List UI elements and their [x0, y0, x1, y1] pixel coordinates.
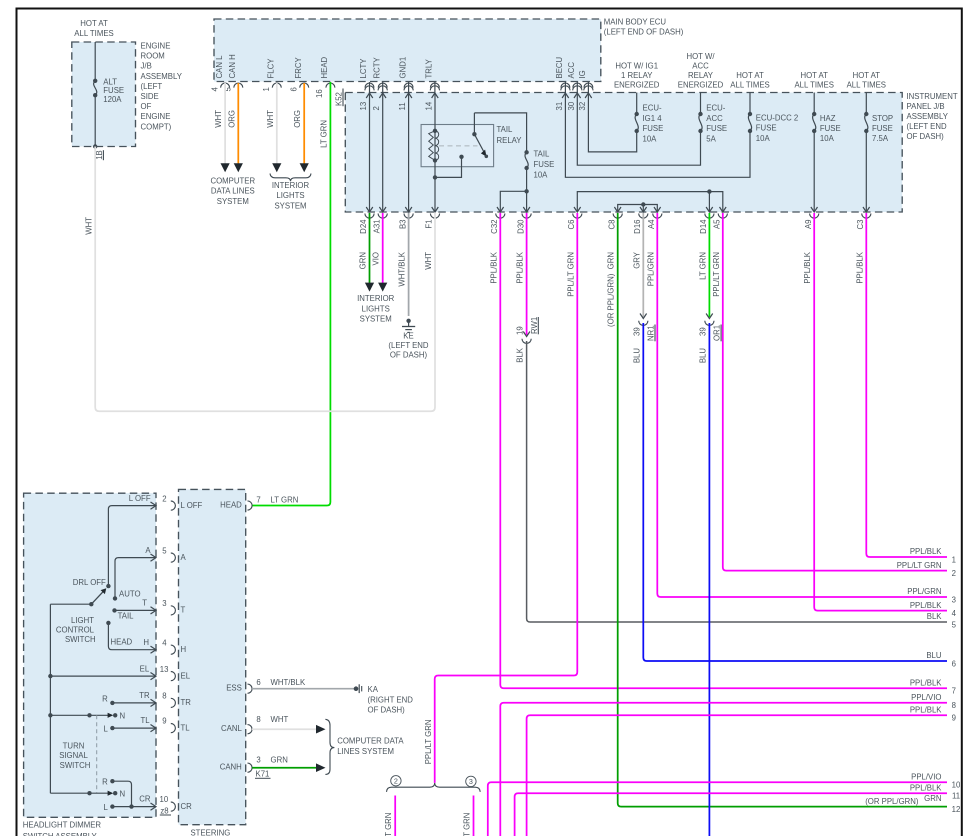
svg-text:R: R: [102, 777, 108, 786]
svg-text:1 RELAY: 1 RELAY: [621, 71, 653, 80]
svg-text:8: 8: [256, 715, 260, 724]
svg-text:BLK: BLK: [515, 347, 524, 363]
svg-text:16: 16: [315, 89, 324, 98]
svg-text:OF: OF: [141, 102, 152, 111]
svg-text:ORG: ORG: [293, 110, 302, 128]
svg-text:PPL/LT GRN: PPL/LT GRN: [384, 813, 393, 836]
svg-text:LT GRN: LT GRN: [698, 252, 707, 280]
svg-text:11: 11: [952, 792, 960, 801]
svg-text:A5: A5: [713, 219, 722, 229]
svg-text:ENERGIZED: ENERGIZED: [614, 80, 660, 89]
svg-text:5: 5: [162, 546, 167, 555]
svg-text:HOT W/: HOT W/: [686, 52, 715, 61]
svg-text:AUTO: AUTO: [119, 590, 141, 599]
svg-text:PPL/BLK: PPL/BLK: [803, 251, 812, 283]
svg-text:TL: TL: [140, 716, 150, 725]
svg-text:DRL OFF: DRL OFF: [73, 578, 106, 587]
svg-text:FUSE: FUSE: [872, 124, 893, 133]
svg-text:31: 31: [555, 102, 564, 111]
svg-text:EL: EL: [181, 671, 191, 680]
svg-text:ECU-: ECU-: [706, 104, 725, 113]
svg-text:PPL/BLK: PPL/BLK: [489, 251, 498, 283]
svg-text:CANH: CANH: [220, 763, 242, 772]
svg-text:12: 12: [952, 805, 961, 814]
svg-text:10A: 10A: [820, 134, 835, 143]
svg-text:9: 9: [952, 714, 956, 723]
svg-text:z8: z8: [160, 807, 168, 816]
svg-text:TAIL: TAIL: [118, 612, 135, 621]
svg-text:2: 2: [394, 777, 398, 786]
svg-text:FUSE: FUSE: [706, 124, 727, 133]
svg-text:FUSE: FUSE: [103, 86, 124, 95]
svg-text:T: T: [142, 599, 147, 608]
svg-text:L: L: [103, 803, 108, 812]
svg-text:C8: C8: [607, 220, 616, 230]
svg-text:39: 39: [698, 327, 707, 336]
svg-text:OR1: OR1: [713, 325, 722, 341]
svg-text:ALT: ALT: [103, 78, 117, 87]
svg-text:HOT AT: HOT AT: [80, 19, 108, 28]
svg-text:PPL/BLK: PPL/BLK: [910, 679, 942, 688]
svg-text:HEADLIGHT DIMMER: HEADLIGHT DIMMER: [23, 821, 102, 830]
svg-text:R: R: [102, 695, 108, 704]
svg-text:1: 1: [262, 87, 271, 91]
svg-text:4: 4: [211, 87, 220, 92]
svg-text:B3: B3: [398, 220, 407, 230]
svg-text:11: 11: [398, 102, 407, 110]
svg-text:ACC: ACC: [692, 62, 709, 71]
svg-text:5: 5: [952, 620, 957, 629]
svg-text:ECU-: ECU-: [643, 104, 662, 113]
svg-text:PPL/BLK: PPL/BLK: [855, 251, 864, 283]
svg-text:K71: K71: [256, 769, 270, 778]
svg-text:PPL/LT GRN: PPL/LT GRN: [566, 252, 575, 297]
svg-text:WHT/BLK: WHT/BLK: [271, 678, 306, 687]
svg-text:COMPT): COMPT): [141, 122, 172, 131]
svg-text:COMPUTER DATA: COMPUTER DATA: [337, 737, 404, 746]
svg-text:INTERIOR: INTERIOR: [272, 181, 310, 190]
svg-text:INSTRUMENT: INSTRUMENT: [907, 92, 958, 101]
svg-text:TL: TL: [181, 723, 191, 732]
svg-text:LT GRN: LT GRN: [271, 495, 299, 504]
svg-text:(LEFT: (LEFT: [141, 82, 163, 91]
svg-text:PANEL J/B: PANEL J/B: [907, 102, 945, 111]
svg-text:ROOM: ROOM: [141, 52, 165, 61]
svg-text:OF DASH): OF DASH): [368, 706, 406, 715]
svg-text:BECU: BECU: [555, 56, 564, 78]
svg-text:J/B: J/B: [141, 62, 152, 71]
svg-text:LINES SYSTEM: LINES SYSTEM: [337, 747, 394, 756]
svg-text:ACC: ACC: [567, 62, 576, 79]
svg-text:SIDE: SIDE: [141, 92, 159, 101]
svg-text:RW1: RW1: [530, 317, 539, 334]
svg-text:HEAD: HEAD: [220, 501, 242, 510]
svg-text:(LEFT END: (LEFT END: [907, 122, 948, 131]
svg-text:A4: A4: [647, 219, 656, 229]
svg-text:4: 4: [162, 639, 167, 648]
svg-text:FUSE: FUSE: [820, 124, 841, 133]
svg-text:D24: D24: [359, 219, 368, 234]
svg-text:RELAY: RELAY: [688, 71, 714, 80]
svg-text:39: 39: [632, 327, 641, 336]
svg-text:3: 3: [256, 755, 260, 764]
svg-text:1B: 1B: [95, 150, 104, 160]
svg-text:(OR PPL/GRN): (OR PPL/GRN): [865, 797, 919, 806]
svg-text:DATA LINES: DATA LINES: [211, 187, 255, 196]
svg-text:PPL/BLK: PPL/BLK: [910, 547, 942, 556]
svg-text:KE: KE: [403, 331, 413, 340]
svg-text:PPL/BLK: PPL/BLK: [516, 251, 525, 283]
svg-text:INTERIOR: INTERIOR: [357, 294, 395, 303]
svg-text:K52: K52: [335, 92, 344, 106]
svg-text:ESS: ESS: [226, 684, 242, 693]
svg-text:EL: EL: [140, 664, 150, 673]
svg-text:A31: A31: [372, 220, 381, 234]
svg-text:GRN: GRN: [924, 794, 941, 803]
svg-text:PPL/LT GRN: PPL/LT GRN: [897, 561, 942, 570]
svg-text:SYSTEM: SYSTEM: [274, 201, 306, 210]
svg-text:IG: IG: [578, 70, 587, 78]
svg-text:WHT: WHT: [424, 252, 433, 270]
svg-text:F1: F1: [425, 220, 434, 229]
svg-text:ASSEMBLY: ASSEMBLY: [907, 112, 949, 121]
svg-text:ALL TIMES: ALL TIMES: [847, 80, 886, 89]
svg-text:IG1 4: IG1 4: [643, 114, 663, 123]
svg-text:CONTROL: CONTROL: [56, 625, 95, 634]
svg-text:LIGHTS: LIGHTS: [276, 191, 304, 200]
svg-text:HOT W/ IG1: HOT W/ IG1: [615, 62, 658, 71]
svg-text:7.5A: 7.5A: [872, 134, 889, 143]
svg-text:A: A: [181, 553, 187, 562]
svg-text:OF DASH): OF DASH): [390, 351, 428, 360]
svg-text:3: 3: [952, 595, 956, 604]
svg-text:SIGNAL: SIGNAL: [59, 751, 88, 760]
svg-text:ECU-DCC 2: ECU-DCC 2: [756, 113, 798, 122]
svg-text:FLCY: FLCY: [267, 58, 276, 79]
svg-text:13: 13: [160, 665, 169, 674]
svg-text:MAIN BODY ECU: MAIN BODY ECU: [604, 18, 667, 27]
svg-text:N: N: [120, 790, 126, 799]
svg-text:COMPUTER: COMPUTER: [210, 176, 255, 185]
svg-text:WHT: WHT: [84, 217, 93, 235]
svg-text:NR1: NR1: [647, 325, 656, 341]
svg-text:D30: D30: [516, 219, 525, 234]
svg-text:D16: D16: [633, 220, 642, 234]
svg-text:2: 2: [372, 106, 381, 110]
svg-text:SYSTEM: SYSTEM: [217, 197, 249, 206]
svg-text:FRCY: FRCY: [294, 56, 303, 78]
svg-text:10: 10: [160, 795, 169, 804]
svg-text:ACC: ACC: [706, 114, 723, 123]
svg-text:2: 2: [952, 569, 956, 578]
svg-text:D14: D14: [699, 219, 708, 234]
svg-text:BLU: BLU: [926, 651, 942, 660]
svg-text:ENGINE: ENGINE: [141, 42, 171, 51]
svg-text:BLK: BLK: [927, 612, 943, 621]
svg-text:HEAD: HEAD: [111, 638, 133, 647]
svg-text:WHT: WHT: [214, 110, 223, 128]
svg-text:C32: C32: [490, 220, 499, 234]
svg-text:L: L: [103, 724, 108, 733]
svg-text:19: 19: [515, 326, 524, 335]
svg-text:TR: TR: [181, 698, 192, 707]
svg-text:7: 7: [952, 687, 956, 696]
svg-text:PPL/GRN: PPL/GRN: [907, 587, 941, 596]
svg-text:PPL/BLK: PPL/BLK: [910, 705, 942, 714]
svg-text:6: 6: [290, 87, 299, 91]
svg-text:9: 9: [162, 717, 166, 726]
svg-text:CANL: CANL: [221, 724, 242, 733]
svg-text:2: 2: [162, 494, 166, 503]
svg-text:6: 6: [256, 678, 260, 687]
svg-text:10A: 10A: [534, 171, 549, 180]
svg-text:FUSE: FUSE: [534, 160, 555, 169]
svg-text:10: 10: [952, 781, 961, 790]
svg-text:HOT AT: HOT AT: [800, 71, 828, 80]
svg-text:OF DASH): OF DASH): [907, 132, 945, 141]
svg-text:BLU: BLU: [632, 348, 641, 364]
svg-text:(LEFT END: (LEFT END: [388, 341, 429, 350]
svg-text:PPL/LT GRN: PPL/LT GRN: [463, 813, 472, 836]
svg-text:10A: 10A: [756, 134, 771, 143]
svg-text:STEERING: STEERING: [190, 829, 230, 836]
svg-text:PPL/VIO: PPL/VIO: [911, 772, 941, 781]
svg-text:SYSTEM: SYSTEM: [360, 315, 392, 324]
svg-text:LIGHTS: LIGHTS: [362, 304, 390, 313]
svg-text:ENGINE: ENGINE: [141, 112, 171, 121]
svg-text:LIGHT: LIGHT: [71, 616, 94, 625]
svg-text:GRY: GRY: [632, 251, 641, 269]
svg-text:8: 8: [162, 691, 166, 700]
svg-text:(RIGHT END: (RIGHT END: [368, 695, 414, 704]
svg-text:(OR PPL/GRN) GRN: (OR PPL/GRN) GRN: [607, 252, 616, 327]
svg-text:14: 14: [424, 101, 433, 110]
svg-text:FUSE: FUSE: [643, 124, 664, 133]
svg-text:WHT/BLK: WHT/BLK: [398, 251, 407, 286]
svg-text:120A: 120A: [103, 95, 122, 104]
svg-text:H: H: [143, 638, 149, 647]
svg-text:4: 4: [952, 609, 957, 618]
svg-text:WHT: WHT: [266, 110, 275, 128]
svg-text:GRN: GRN: [271, 755, 288, 764]
svg-text:TRLY: TRLY: [425, 58, 434, 78]
svg-text:CR: CR: [139, 795, 151, 804]
svg-text:C3: C3: [856, 220, 865, 230]
svg-text:TAIL: TAIL: [497, 125, 514, 134]
svg-text:SWITCH: SWITCH: [65, 635, 96, 644]
svg-text:TURN: TURN: [63, 742, 85, 751]
svg-text:1: 1: [952, 555, 956, 564]
svg-text:ALL TIMES: ALL TIMES: [74, 29, 113, 38]
svg-text:PPL/LT GRN: PPL/LT GRN: [424, 720, 433, 765]
svg-text:PPL/BLK: PPL/BLK: [910, 601, 942, 610]
svg-text:GRN: GRN: [359, 252, 368, 269]
svg-text:13: 13: [359, 102, 368, 111]
svg-text:ALL TIMES: ALL TIMES: [794, 80, 833, 89]
svg-text:STOP: STOP: [872, 114, 893, 123]
svg-text:PPL/BLK: PPL/BLK: [910, 783, 942, 792]
svg-text:KA: KA: [368, 685, 379, 694]
svg-text:VIO: VIO: [372, 252, 381, 265]
svg-text:PPL/GRN: PPL/GRN: [646, 252, 655, 286]
svg-text:ORG: ORG: [227, 110, 236, 128]
svg-text:T: T: [181, 606, 186, 615]
svg-text:A: A: [145, 546, 151, 555]
svg-text:LT GRN: LT GRN: [319, 120, 328, 148]
svg-text:H: H: [181, 645, 187, 654]
svg-text:3: 3: [469, 777, 473, 786]
svg-text:HOT AT: HOT AT: [853, 71, 881, 80]
svg-text:8: 8: [952, 701, 956, 710]
svg-text:HEAD: HEAD: [320, 56, 329, 78]
svg-text:BLU: BLU: [698, 348, 707, 364]
svg-text:CAN L: CAN L: [215, 55, 224, 79]
svg-text:L OFF: L OFF: [181, 501, 203, 510]
svg-text:6: 6: [952, 659, 956, 668]
svg-text:LCTY: LCTY: [359, 58, 368, 79]
svg-text:7: 7: [256, 495, 260, 504]
svg-text:TR: TR: [139, 691, 150, 700]
svg-text:(LEFT END OF DASH): (LEFT END OF DASH): [604, 28, 684, 37]
svg-text:RELAY: RELAY: [497, 136, 523, 145]
svg-text:5A: 5A: [706, 134, 716, 143]
svg-text:30: 30: [567, 101, 576, 110]
svg-text:3: 3: [162, 599, 166, 608]
svg-text:ALL TIMES: ALL TIMES: [730, 80, 769, 89]
svg-text:ASSEMBLY: ASSEMBLY: [141, 72, 183, 81]
svg-text:CAN H: CAN H: [228, 54, 237, 78]
svg-text:HAZ: HAZ: [820, 114, 836, 123]
svg-text:FUSE: FUSE: [756, 124, 777, 133]
svg-text:TAIL: TAIL: [534, 150, 551, 159]
svg-text:C6: C6: [567, 220, 576, 230]
svg-text:SWITCH ASSEMBLY: SWITCH ASSEMBLY: [23, 832, 98, 836]
svg-text:PPL/VIO: PPL/VIO: [911, 693, 941, 702]
svg-text:N: N: [120, 712, 126, 721]
svg-text:32: 32: [578, 102, 587, 111]
svg-text:L OFF: L OFF: [129, 494, 151, 503]
svg-text:ENERGIZED: ENERGIZED: [678, 80, 724, 89]
svg-text:SWITCH: SWITCH: [60, 761, 91, 770]
svg-text:10A: 10A: [643, 134, 658, 143]
svg-text:HOT AT: HOT AT: [736, 71, 764, 80]
svg-text:WHT: WHT: [271, 715, 289, 724]
svg-text:CR: CR: [181, 802, 193, 811]
svg-text:A9: A9: [804, 220, 813, 230]
svg-text:PPL/LT GRN: PPL/LT GRN: [712, 252, 721, 297]
svg-text:GND1: GND1: [398, 57, 407, 79]
svg-text:RCTY: RCTY: [372, 56, 381, 78]
